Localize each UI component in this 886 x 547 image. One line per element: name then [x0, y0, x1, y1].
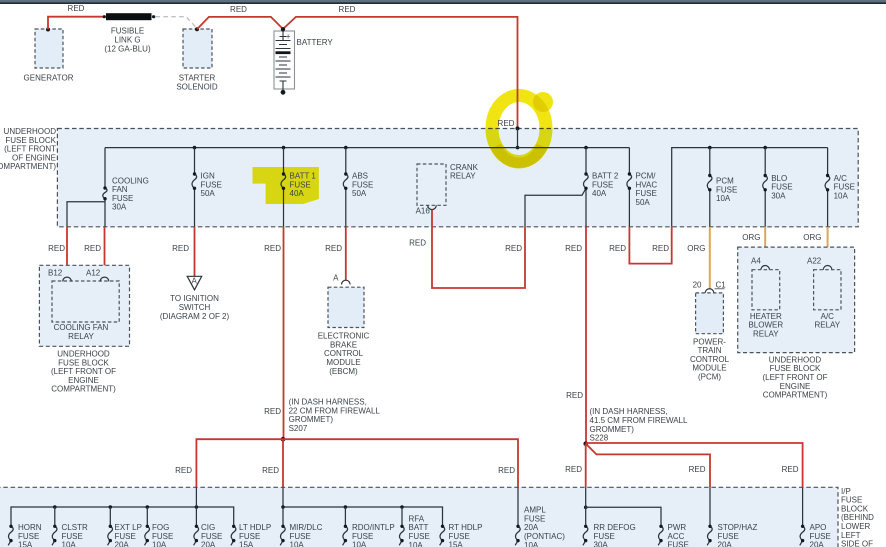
- svg-text:FOG: FOG: [152, 523, 169, 532]
- svg-text:(12 GA-BLU): (12 GA-BLU): [104, 45, 151, 54]
- wire ORG pcm fuse to PCM pin C1: [687, 227, 710, 289]
- svg-text:FUSE: FUSE: [636, 189, 657, 198]
- svg-text:BATT: BATT: [409, 523, 429, 532]
- svg-text:RED: RED: [339, 5, 356, 14]
- svg-text:EXT LP: EXT LP: [115, 523, 142, 532]
- fuse RR DEFOG 30A: [583, 487, 661, 547]
- svg-text:FUSE: FUSE: [716, 185, 737, 194]
- svg-text:A22: A22: [807, 257, 822, 266]
- svg-text:A12: A12: [86, 268, 101, 277]
- svg-text:UNDERHOOD: UNDERHOOD: [57, 350, 110, 359]
- svg-text:RED: RED: [264, 244, 281, 253]
- svg-text:COMPARTMENT): COMPARTMENT): [51, 385, 116, 394]
- svg-text:50A: 50A: [352, 189, 367, 198]
- svg-text:(PONTIAC): (PONTIAC): [524, 532, 565, 541]
- svg-text:ORG: ORG: [687, 244, 705, 253]
- fuse AMPL 20A: [515, 487, 565, 547]
- svg-text:50A: 50A: [636, 198, 651, 207]
- svg-text:FUSE BLOCK: FUSE BLOCK: [5, 136, 56, 145]
- svg-text:(PCM): (PCM): [698, 373, 721, 382]
- heater blower relay: [748, 257, 783, 339]
- svg-text:(LEFT FRONT OF: (LEFT FRONT OF: [51, 367, 116, 376]
- wire RED ign fuse to ignition switch: [172, 227, 194, 276]
- fuse FOG 10A: [145, 505, 174, 547]
- svg-text:GROMMET): GROMMET): [289, 415, 334, 424]
- svg-text:FUSE: FUSE: [841, 496, 862, 505]
- wire RED starter solenoid / battery to fuse block: [197, 5, 518, 128]
- off-page connector A to ignition switch: [160, 276, 230, 321]
- wire RED generator to fusible link: [48, 4, 104, 30]
- svg-text:STARTER: STARTER: [179, 73, 216, 82]
- fuse IGN 50A: [192, 146, 222, 227]
- svg-text:BATT 2: BATT 2: [592, 172, 619, 181]
- svg-text:CIG: CIG: [201, 523, 215, 532]
- fuse A/C 10A: [825, 148, 855, 227]
- svg-text:+: +: [286, 32, 291, 41]
- cooling fan relay in underhood fuse block: [39, 265, 129, 346]
- svg-text:COOLING: COOLING: [112, 176, 149, 185]
- wire RED cooling fan fuse to A12: [84, 227, 104, 277]
- svg-text:FUSE: FUSE: [18, 532, 39, 541]
- svg-text:PWR: PWR: [668, 523, 687, 532]
- svg-text:22 CM FROM FIREWALL: 22 CM FROM FIREWALL: [289, 406, 381, 415]
- wire RED S228 branch to STOP/HAZ fuse: [586, 444, 710, 488]
- svg-text:GROMMET): GROMMET): [590, 425, 635, 434]
- svg-text:IGN: IGN: [201, 172, 215, 181]
- svg-text:15A: 15A: [239, 541, 254, 547]
- svg-text:ENGINE: ENGINE: [780, 382, 811, 391]
- svg-text:RED: RED: [230, 5, 247, 14]
- fuse PWR ACC: [658, 523, 689, 547]
- svg-text:RED: RED: [262, 466, 279, 475]
- svg-text:10A: 10A: [152, 541, 167, 547]
- fuse LT HDLP 15A: [231, 523, 271, 547]
- svg-text:RED: RED: [566, 391, 583, 400]
- electronic brake control module (EBCM): [318, 274, 370, 376]
- svg-text:FUSE: FUSE: [115, 532, 136, 541]
- wire RED S228 branch to APO fuse: [586, 443, 803, 487]
- svg-text:FUSE: FUSE: [524, 514, 545, 523]
- svg-text:CONTROL: CONTROL: [690, 355, 730, 364]
- svg-text:FUSE: FUSE: [239, 532, 260, 541]
- svg-text:15A: 15A: [18, 541, 33, 547]
- svg-text:20A: 20A: [524, 523, 539, 532]
- svg-text:HVAC: HVAC: [636, 180, 658, 189]
- svg-text:ENGINE: ENGINE: [68, 376, 99, 385]
- svg-text:RED: RED: [689, 465, 706, 474]
- svg-text:RDO/INTLP: RDO/INTLP: [352, 523, 395, 532]
- svg-text:RED: RED: [68, 4, 85, 13]
- svg-text:APO: APO: [810, 523, 827, 532]
- fuse PCM 10A: [707, 146, 737, 227]
- svg-text:10A: 10A: [409, 541, 424, 547]
- svg-text:20A: 20A: [718, 541, 733, 547]
- svg-text:TRAIN: TRAIN: [698, 346, 722, 355]
- svg-text:FUSE: FUSE: [718, 532, 739, 541]
- svg-text:TO IGNITION: TO IGNITION: [170, 294, 219, 303]
- svg-text:40A: 40A: [592, 189, 607, 198]
- svg-text:FUSE BLOCK: FUSE BLOCK: [770, 364, 821, 373]
- svg-text:FUSE: FUSE: [201, 180, 222, 189]
- highlight on BATT 1 fuse: [253, 167, 319, 204]
- svg-text:MODULE: MODULE: [326, 358, 360, 367]
- svg-text:SWITCH: SWITCH: [179, 303, 211, 312]
- svg-text:40A: 40A: [290, 189, 305, 198]
- wire RED batt 1 fuse to S207: [264, 227, 283, 439]
- svg-text:FUSIBLE: FUSIBLE: [111, 27, 144, 36]
- svg-text:ORG: ORG: [742, 233, 760, 242]
- svg-text:RED: RED: [264, 407, 281, 416]
- svg-text:RED: RED: [505, 244, 522, 253]
- battery: [274, 27, 333, 95]
- svg-text:FUSE BLOCK: FUSE BLOCK: [58, 358, 109, 367]
- svg-text:RED: RED: [565, 465, 582, 474]
- wire RED cooling fan fuse to B12: [48, 227, 67, 277]
- svg-text:FUSE: FUSE: [668, 541, 689, 547]
- svg-text:CLSTR: CLSTR: [62, 523, 88, 532]
- bus wire main: [105, 147, 629, 149]
- svg-text:CONTROL: CONTROL: [324, 349, 364, 358]
- svg-text:UNDERHOOD: UNDERHOOD: [4, 127, 57, 136]
- node S228 splice: [583, 407, 688, 446]
- underhood fuse block (right, relays): [738, 247, 855, 353]
- svg-text:RED: RED: [175, 466, 192, 475]
- svg-text:CRANK: CRANK: [450, 163, 479, 172]
- svg-text:RED: RED: [498, 119, 515, 128]
- svg-text:C1: C1: [716, 281, 727, 290]
- svg-text:RED: RED: [172, 244, 189, 253]
- svg-text:RELAY: RELAY: [450, 172, 476, 181]
- fuse APO 20A: [800, 487, 831, 547]
- svg-text:RED: RED: [84, 244, 101, 253]
- svg-text:PCM: PCM: [716, 177, 734, 186]
- svg-text:30A: 30A: [112, 203, 127, 212]
- wire dashed fusible link to starter solenoid: [156, 17, 197, 28]
- wire RED abs fuse to EBCM pin A: [325, 227, 346, 280]
- svg-text:BATTERY: BATTERY: [297, 38, 334, 47]
- fuse ABS 50A: [343, 146, 373, 227]
- fuse COOLING FAN 30A: [67, 148, 149, 227]
- wire RED crank relay A16 to batt 2 branch: [409, 210, 525, 288]
- svg-text:ABS: ABS: [352, 172, 368, 181]
- fuse RFA BATT 10A: [399, 505, 430, 547]
- svg-text:BLOWER: BLOWER: [748, 321, 783, 330]
- svg-text:BRAKE: BRAKE: [330, 340, 357, 349]
- svg-text:POWER-: POWER-: [693, 337, 726, 346]
- svg-text:(BEHIND: (BEHIND: [841, 513, 874, 522]
- svg-text:FUSE: FUSE: [771, 183, 792, 192]
- svg-text:FUSE: FUSE: [409, 532, 430, 541]
- svg-text:RED: RED: [609, 244, 626, 253]
- svg-text:A16: A16: [416, 207, 431, 216]
- svg-text:STOP/HAZ: STOP/HAZ: [718, 523, 758, 532]
- svg-text:UNDERHOOD: UNDERHOOD: [769, 355, 822, 364]
- svg-text:(IN DASH HARNESS,: (IN DASH HARNESS,: [590, 407, 668, 416]
- svg-text:A/C: A/C: [821, 312, 835, 321]
- fuse RDO/INTLP 10A: [343, 505, 395, 547]
- fuse CIG 20A: [194, 487, 223, 547]
- powertrain control module (PCM): [690, 281, 730, 382]
- svg-text:SOLENOID: SOLENOID: [176, 82, 218, 91]
- fuse MIR/DLC 10A: [280, 505, 322, 547]
- svg-text:LINK G: LINK G: [114, 36, 140, 45]
- fuse EXT LP 20A: [108, 505, 142, 547]
- svg-text:BLOCK: BLOCK: [841, 504, 869, 513]
- svg-text:RT HDLP: RT HDLP: [449, 523, 483, 532]
- svg-text:COOLING FAN: COOLING FAN: [54, 323, 109, 332]
- I/P fuse block (behind lower left side): [0, 487, 838, 547]
- svg-text:20A: 20A: [810, 541, 825, 547]
- wire RED S207 down branch to MIR/DLC bus: [262, 439, 283, 487]
- svg-text:FUSE: FUSE: [62, 532, 83, 541]
- bus wire I/P block middle: [283, 487, 443, 526]
- svg-text:(DIAGRAM 2 OF 2): (DIAGRAM 2 OF 2): [160, 312, 230, 321]
- svg-text:B12: B12: [48, 268, 63, 277]
- svg-text:S207: S207: [289, 424, 308, 433]
- svg-text:BLO: BLO: [771, 174, 787, 183]
- svg-text:30A: 30A: [594, 541, 609, 547]
- svg-text:RED: RED: [325, 244, 342, 253]
- generator: [24, 28, 74, 83]
- svg-text:A/C: A/C: [834, 174, 848, 183]
- svg-text:30A: 30A: [771, 191, 786, 200]
- svg-text:OF ENGINE: OF ENGINE: [12, 153, 56, 162]
- svg-text:RED: RED: [565, 244, 582, 253]
- svg-text:10A: 10A: [524, 541, 539, 547]
- wire ORG a/c fuse to a/c relay A22: [803, 227, 827, 266]
- svg-text:RED: RED: [498, 466, 515, 475]
- fuse BLO 30A: [763, 146, 793, 227]
- svg-text:SIDE OF: SIDE OF: [841, 540, 873, 547]
- svg-text:FUSE: FUSE: [112, 194, 133, 203]
- svg-text:HEATER: HEATER: [750, 312, 782, 321]
- svg-text:I/P: I/P: [841, 487, 851, 496]
- svg-text:COMPARTMENT): COMPARTMENT): [763, 391, 828, 400]
- svg-text:10A: 10A: [716, 194, 731, 203]
- svg-text:FUSE: FUSE: [834, 183, 855, 192]
- fuse CLSTR 10A: [52, 505, 88, 547]
- wire RED batt 2 fuse to S228: [565, 227, 586, 444]
- svg-text:20A: 20A: [201, 541, 216, 547]
- svg-text:(LEFT FRONT OF: (LEFT FRONT OF: [762, 373, 827, 382]
- svg-text:A: A: [333, 274, 339, 283]
- svg-text:15A: 15A: [449, 541, 464, 547]
- svg-text:LEFT: LEFT: [841, 531, 861, 540]
- wire RED S207 left branch to CIG fuse: [175, 439, 283, 487]
- fusible link G: [103, 13, 155, 54]
- bus wire I/P block left: [11, 507, 234, 526]
- svg-text:LOWER: LOWER: [841, 522, 871, 531]
- fuse HORN 15A: [8, 523, 42, 547]
- starter solenoid: [176, 27, 218, 91]
- fuse BATT 2 40A: [525, 146, 619, 227]
- svg-text:RR DEFOG: RR DEFOG: [594, 523, 636, 532]
- svg-text:RED: RED: [782, 465, 799, 474]
- svg-text:BATT 1: BATT 1: [290, 172, 317, 181]
- fuse STOP/HAZ 20A: [707, 487, 757, 547]
- a/c relay: [807, 257, 841, 330]
- svg-text:FUSE: FUSE: [152, 532, 173, 541]
- svg-text:(IN DASH HARNESS,: (IN DASH HARNESS,: [289, 398, 367, 407]
- svg-text:GENERATOR: GENERATOR: [24, 74, 74, 83]
- svg-text:FUSE: FUSE: [449, 532, 470, 541]
- svg-text:(EBCM): (EBCM): [329, 367, 358, 376]
- underhood fuse block (left front of engine compartment): [57, 129, 858, 227]
- svg-text:FUSE: FUSE: [352, 180, 373, 189]
- svg-text:S228: S228: [590, 434, 609, 443]
- svg-text:RELAY: RELAY: [68, 332, 94, 341]
- fuse RT HDLP 15A: [440, 523, 483, 547]
- svg-text:PCM/: PCM/: [636, 172, 657, 181]
- svg-text:RED: RED: [652, 244, 669, 253]
- svg-text:FAN: FAN: [112, 185, 128, 194]
- svg-text:ELECTRONIC: ELECTRONIC: [318, 332, 370, 341]
- svg-text:10A: 10A: [290, 541, 305, 547]
- svg-text:RED: RED: [409, 239, 426, 248]
- svg-text:10A: 10A: [834, 191, 849, 200]
- svg-text:ACC: ACC: [668, 532, 685, 541]
- svg-text:FUSE: FUSE: [592, 180, 613, 189]
- bus wire secondary (fed by PCM/HVAC fuse): [672, 148, 828, 227]
- svg-text:A: A: [192, 277, 198, 286]
- fuse PCM/HVAC 50A: [627, 148, 657, 227]
- svg-text:FUSE: FUSE: [290, 532, 311, 541]
- svg-text:MODULE: MODULE: [692, 364, 726, 373]
- fuse BATT 1 40A: [281, 146, 316, 227]
- svg-text:A4: A4: [751, 257, 761, 266]
- svg-text:50A: 50A: [201, 189, 216, 198]
- svg-text:RELAY: RELAY: [753, 330, 779, 339]
- svg-text:COMPARTMENT): COMPARTMENT): [0, 162, 56, 171]
- svg-text:FUSE: FUSE: [810, 532, 831, 541]
- svg-text:MIR/DLC: MIR/DLC: [290, 523, 323, 532]
- svg-text:FUSE: FUSE: [594, 532, 615, 541]
- wire RED S228 down branch to RR DEFOG: [565, 444, 586, 488]
- svg-text:10A: 10A: [352, 541, 367, 547]
- wire ORG blo fuse to heater blower relay A4: [742, 227, 765, 266]
- node battery feed at fuse block: [516, 126, 520, 149]
- svg-text:ORG: ORG: [803, 233, 821, 242]
- wire RED pcm/hvac fuse to secondary bus: [609, 227, 672, 264]
- svg-text:RFA: RFA: [409, 514, 425, 523]
- svg-text:RELAY: RELAY: [814, 321, 840, 330]
- highlight ring around battery feed node: [492, 92, 553, 163]
- svg-text:RED: RED: [48, 244, 65, 253]
- svg-text:LT HDLP: LT HDLP: [239, 523, 271, 532]
- svg-text:41.5 CM FROM FIREWALL: 41.5 CM FROM FIREWALL: [590, 416, 688, 425]
- svg-text:FUSE: FUSE: [201, 532, 222, 541]
- wire RED S207 right branch to AMPL fuse: [283, 439, 518, 487]
- svg-text:FUSE: FUSE: [352, 532, 373, 541]
- svg-text:AMPL: AMPL: [524, 506, 546, 515]
- svg-text:(LEFT FRONT: (LEFT FRONT: [4, 145, 56, 154]
- svg-text:10A: 10A: [62, 541, 77, 547]
- svg-text:FUSE: FUSE: [290, 180, 311, 189]
- svg-text:20A: 20A: [115, 541, 130, 547]
- svg-text:20: 20: [693, 281, 702, 290]
- svg-text:HORN: HORN: [18, 523, 42, 532]
- node S207 splice: [281, 398, 381, 442]
- crank relay: [416, 163, 479, 216]
